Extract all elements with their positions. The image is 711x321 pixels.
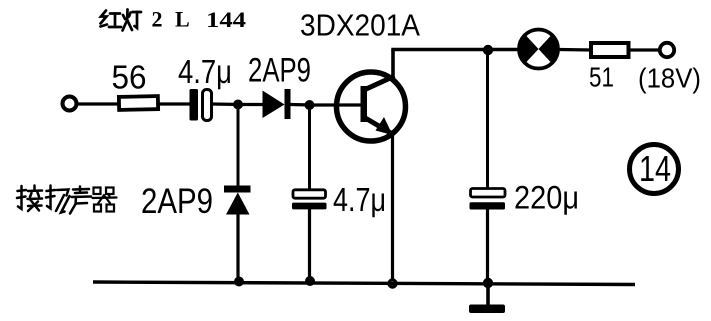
wire node C down to C3: [486, 50, 489, 189]
figure number circle 14: [630, 145, 679, 194]
wire Q1 emitter down to rail: [391, 133, 394, 283]
ground stub wire: [486, 284, 490, 306]
wire D2 to bottom rail: [236, 215, 239, 285]
svg-text:2AP9: 2AP9: [248, 52, 311, 90]
label speaker hanzi 器: [93, 188, 117, 212]
node C junction dot (lamp branch): [483, 45, 493, 55]
wire C2 to bottom rail: [308, 209, 311, 284]
resistor R2 (51): [591, 43, 629, 57]
capacitor C2 bottom plate: [292, 203, 327, 210]
capacitor C1 right plate: [203, 90, 212, 121]
junction emitter rail (ring dot): [387, 278, 397, 288]
svg-text:14: 14: [639, 148, 671, 189]
junction dot D2 rail: [234, 277, 244, 287]
junction dot C2 rail: [305, 276, 315, 286]
resistor R1 (56): [119, 96, 158, 110]
label title hanzi 灯: [123, 10, 142, 31]
label speaker hanzi 扬: [46, 186, 70, 213]
ground symbol: [469, 305, 505, 314]
transistor Q1 (3DX201A): [337, 72, 406, 141]
wire input to R1: [77, 102, 120, 105]
wire node A to D1: [238, 103, 263, 106]
label speaker hanzi 声: [70, 187, 91, 214]
wire lamp to R2: [559, 48, 592, 52]
capacitor C3 (220u) top plate: [471, 189, 506, 198]
capacitor C2 (4.7u) top plate: [293, 190, 326, 198]
node A junction dot: [233, 100, 243, 110]
node B junction dot: [305, 100, 315, 110]
svg-text:51: 51: [589, 62, 614, 93]
label title text 2 L 144: [152, 7, 247, 32]
terminal output 18V: [660, 43, 674, 57]
diode D2 (2AP9) shunt: [224, 186, 251, 215]
capacitor C3 bottom plate: [470, 202, 506, 209]
wire node B to base of Q1: [310, 103, 362, 106]
svg-text:(18V): (18V): [638, 63, 701, 94]
wire Q1 collector up to rail: [391, 50, 395, 80]
wire node B down to C2: [308, 105, 311, 189]
svg-text:2: 2: [152, 7, 163, 32]
wire D1 to node B: [291, 103, 313, 107]
svg-text:2AP9: 2AP9: [141, 182, 213, 221]
svg-text:220μ: 220μ: [514, 180, 579, 216]
wire top rail collector to lamp: [391, 48, 518, 52]
svg-text:4.7μ: 4.7μ: [333, 181, 386, 218]
bottom rail wire: [93, 282, 635, 285]
lamp (indicator): [519, 30, 558, 69]
wire R2 to terminal: [629, 48, 660, 51]
wire node A down to D2: [237, 105, 240, 188]
svg-text:L: L: [175, 7, 190, 32]
label title hanzi 红: [101, 11, 122, 28]
diode D1 (2AP9): [263, 89, 291, 119]
wire C3 to bottom rail: [486, 209, 489, 284]
label speaker hanzi 接: [17, 186, 42, 212]
svg-text:56: 56: [112, 59, 147, 96]
junction dot C3 rail ground node: [483, 278, 493, 288]
svg-text:144: 144: [206, 7, 246, 32]
wire R1 to C1: [157, 102, 190, 105]
terminal input: [63, 97, 77, 111]
capacitor C1 (4.7u) left plate: [190, 89, 199, 121]
svg-text:3DX201A: 3DX201A: [300, 9, 421, 43]
svg-text:4.7μ: 4.7μ: [178, 53, 232, 90]
wire C1 to node A: [212, 102, 241, 106]
